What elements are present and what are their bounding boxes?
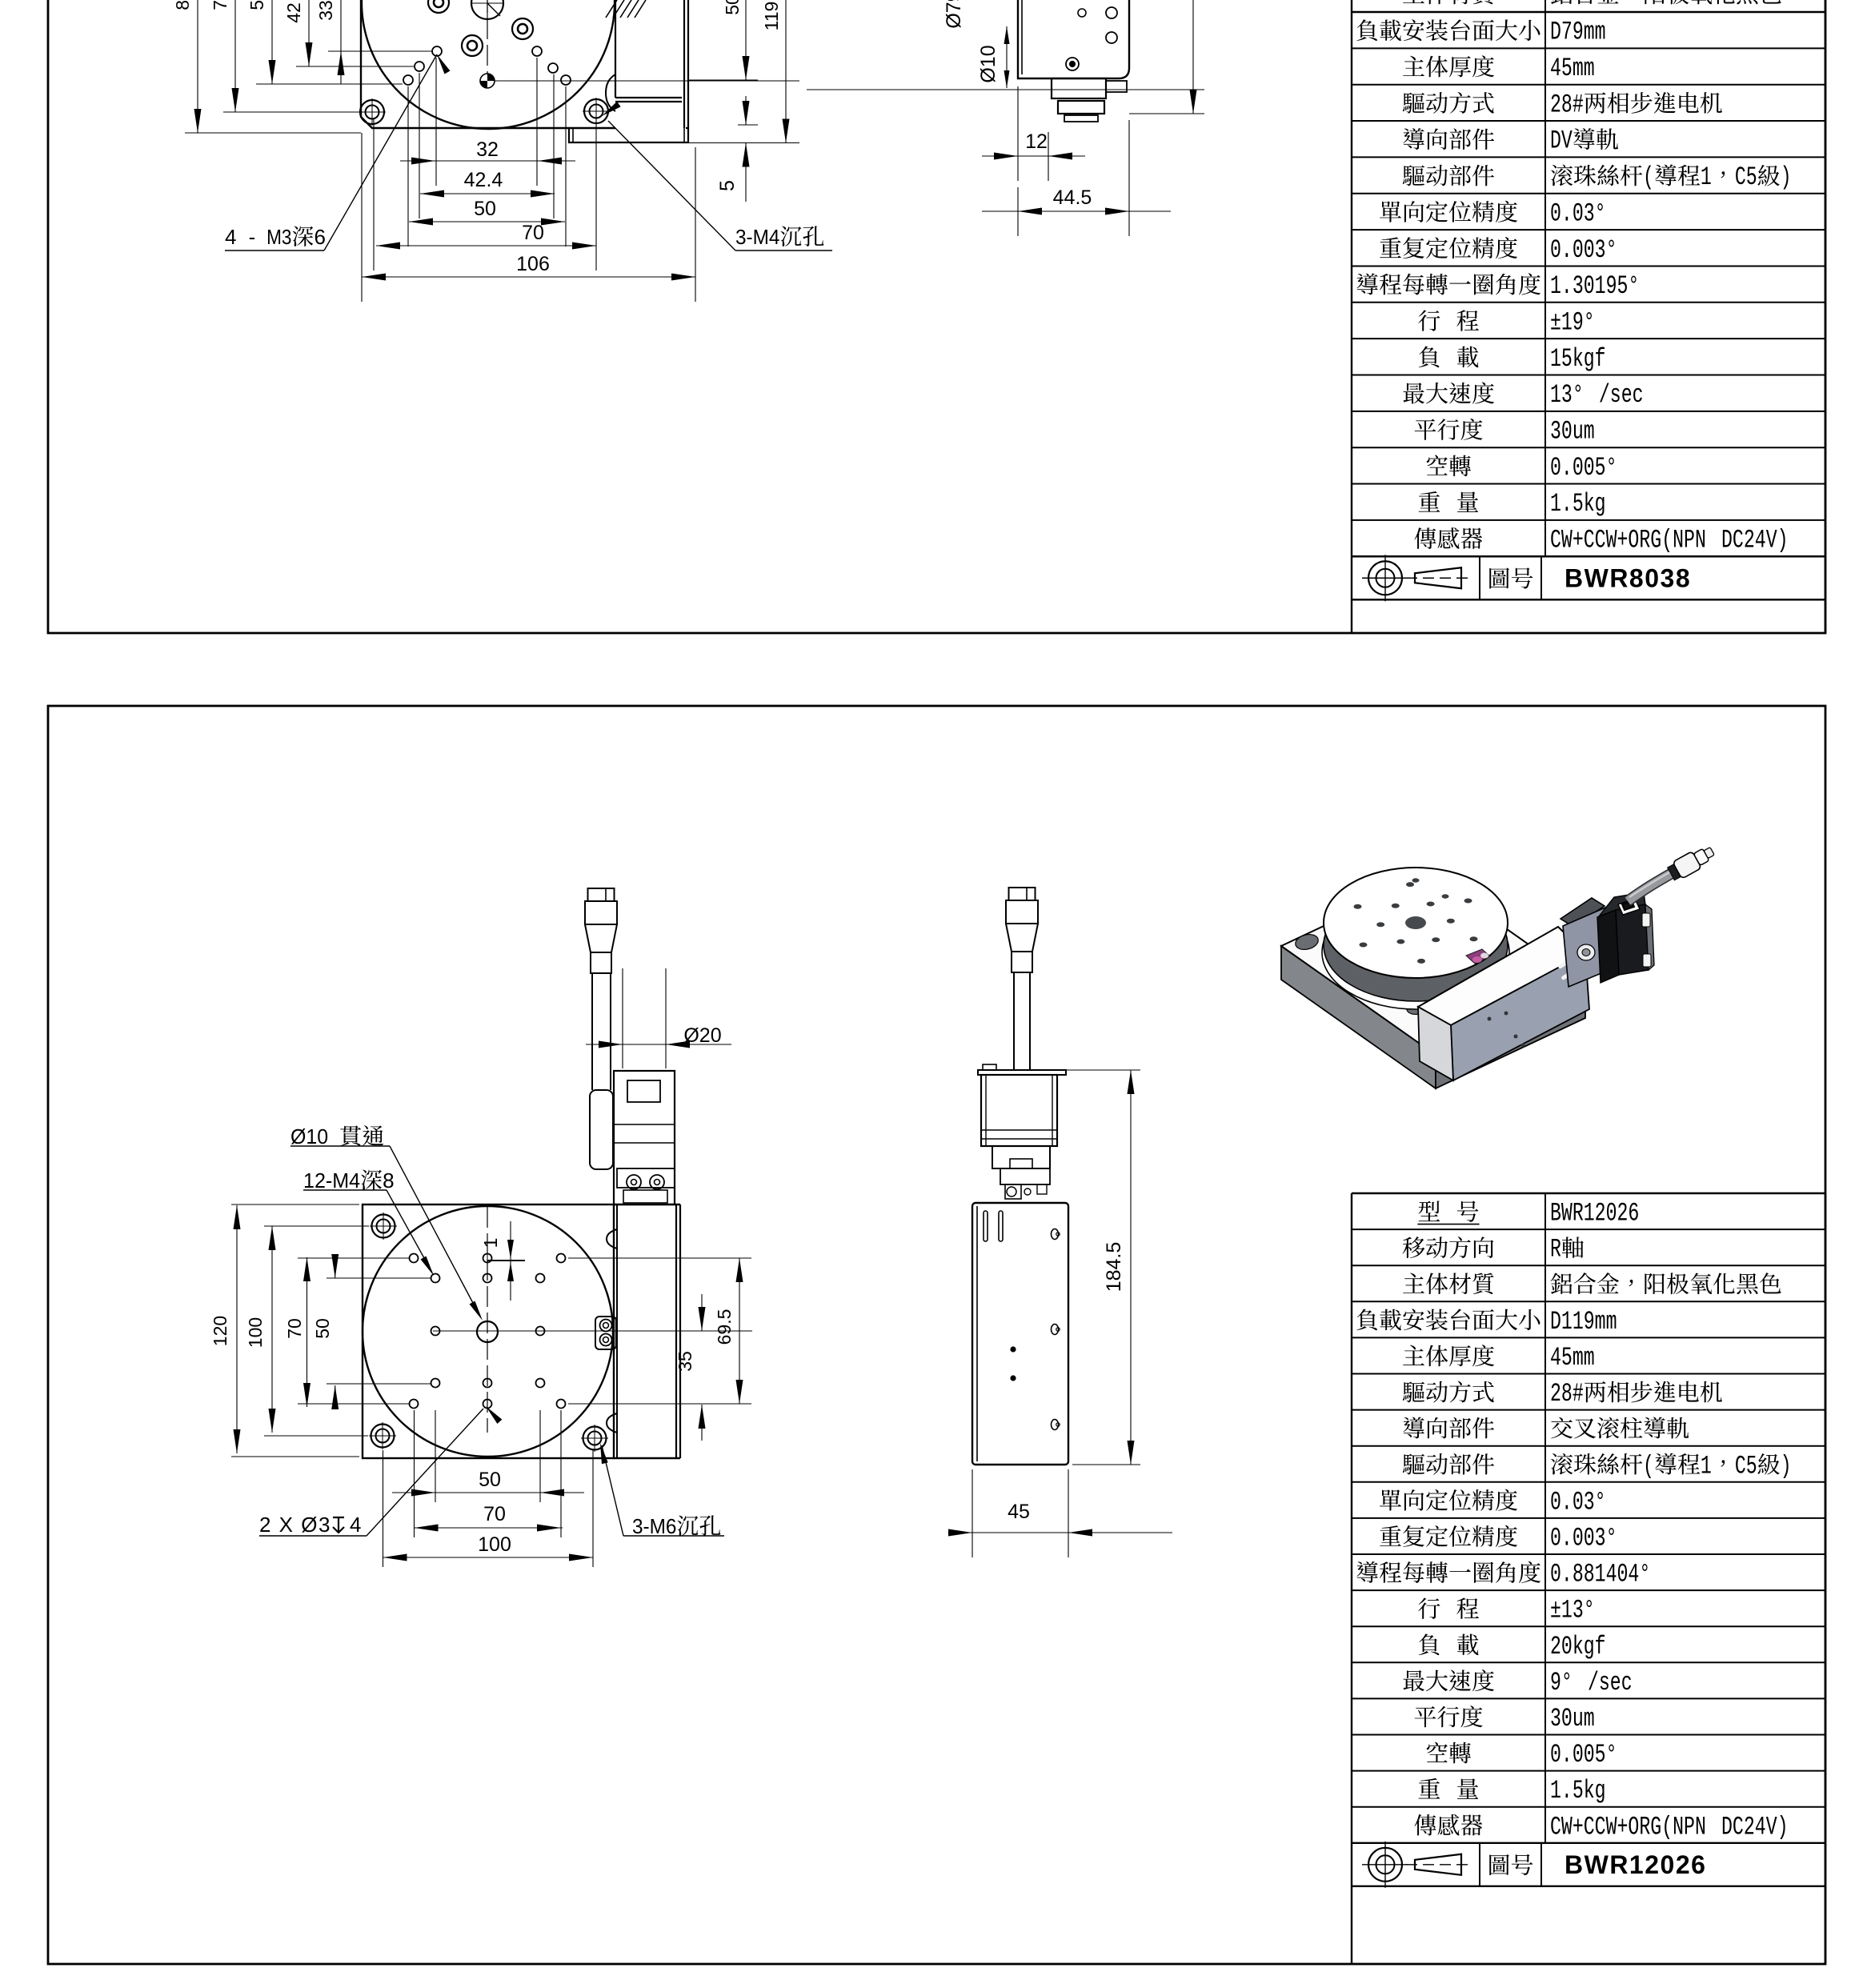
- svg-text:69.5: 69.5: [714, 1309, 735, 1345]
- sheet2 plan view: square body: [363, 1204, 614, 1458]
- svg-text:106: 106: [516, 253, 550, 275]
- sheet2 plan: centerline horizontal: [433, 1330, 752, 1332]
- iso view: motor cable entry box: [1618, 899, 1640, 915]
- svg-text:): ): [1781, 162, 1792, 192]
- sheet2 plan: mini dim 1: [487, 1260, 525, 1261]
- svg-text:4: 4: [225, 225, 236, 249]
- sheet1 plan view: square body outline: [361, 0, 569, 128]
- svg-text:45: 45: [1008, 1501, 1030, 1523]
- sheet2 side view: adapter: [1000, 1168, 1050, 1184]
- sheet1 plan: base tab bottom right: [569, 128, 688, 142]
- svg-text:Ø10: Ø10: [290, 1124, 328, 1148]
- svg-text:119: 119: [761, 2, 782, 31]
- svg-text:CW+CCW+ORG(NPN: CW+CCW+ORG(NPN: [1550, 1812, 1706, 1842]
- iso view: rail cover top face: [1418, 927, 1585, 1025]
- tuhao label: [1489, 1854, 1532, 1875]
- svg-text:1.30195°: 1.30195°: [1550, 271, 1639, 301]
- svg-text:50: 50: [246, 0, 267, 10]
- svg-text:0.03°: 0.03°: [1550, 198, 1606, 228]
- svg-text:D119mm: D119mm: [1550, 1307, 1617, 1337]
- svg-text:±13°: ±13°: [1550, 1596, 1595, 1625]
- iso view: turntable bottom flange: [1322, 896, 1509, 1009]
- sheet1 plan: corner screw bottom-left: [360, 100, 384, 124]
- sheet2 side view: coupling housing: [992, 1146, 1050, 1168]
- iso view: cable connector: [1666, 843, 1717, 883]
- svg-text:CW+CCW+ORG(NPN: CW+CCW+ORG(NPN: [1550, 526, 1706, 555]
- svg-text:100: 100: [478, 1533, 511, 1556]
- sheet2 bottom dim 70: [415, 1527, 563, 1529]
- svg-text:3-M6: 3-M6: [632, 1514, 676, 1538]
- sheet2 plan: corner screw bottom-right: [583, 1427, 607, 1450]
- svg-text:0.005°: 0.005°: [1550, 1740, 1617, 1770]
- svg-text:12-M4: 12-M4: [303, 1168, 360, 1192]
- svg-text:M3: M3: [266, 225, 291, 249]
- svg-text:42: 42: [283, 2, 304, 23]
- sheet2 plan view: turntable circle D119: [363, 1206, 613, 1457]
- svg-text:13°: 13°: [1550, 380, 1584, 410]
- sheet2 side view: motor flange: [978, 1070, 1066, 1075]
- sheet1 plan: horizontal centerline to side view: [495, 80, 799, 82]
- sheet1 side view: main body: [1018, 0, 1129, 78]
- cone projection symbol: [1415, 1854, 1461, 1875]
- iso view: base corner holes: [1294, 932, 1320, 952]
- sheet2 plan: hole pattern: [410, 1254, 419, 1263]
- svg-text:70: 70: [522, 222, 544, 244]
- svg-text:1.5kg: 1.5kg: [1550, 489, 1606, 519]
- sheet2 plan-col motor block (top view): [614, 1071, 675, 1204]
- iso view: motor right edge sliver: [1645, 904, 1654, 970]
- cone projection symbol: [1415, 567, 1461, 588]
- sheet1 dim 42.4 line: [308, 0, 310, 66]
- sheet2 plan: sensor dog connector: [595, 1317, 616, 1349]
- svg-text:45mm: 45mm: [1550, 54, 1595, 83]
- svg-text:30um: 30um: [1550, 417, 1595, 447]
- sheet2 plan-col coupling detail: [617, 1168, 675, 1188]
- svg-text:2 X Ø3: 2 X Ø3: [259, 1513, 331, 1537]
- svg-text:3-M4: 3-M4: [735, 225, 779, 249]
- svg-text:28#: 28#: [1550, 1379, 1584, 1409]
- sheet1 plan: counterbore holes on table: [428, 0, 449, 13]
- svg-text:0.881404°: 0.881404°: [1550, 1560, 1650, 1589]
- sheet1 plan: turntable circle (partial): [362, 0, 615, 129]
- sheet1 dim 50 line: [271, 0, 273, 84]
- svg-text:70: 70: [210, 0, 230, 10]
- svg-text:9°: 9°: [1550, 1668, 1573, 1697]
- svg-text:15kgf: 15kgf: [1550, 344, 1606, 374]
- svg-text:BWR12026: BWR12026: [1550, 1199, 1639, 1228]
- svg-text:DV: DV: [1550, 126, 1573, 156]
- sheet2 dim 50: [335, 1260, 336, 1278]
- sheet1 plan: clamp hatch top right: [606, 0, 617, 18]
- sheet2 bottom dim 50: [392, 1492, 584, 1493]
- sheet1 plan: vertical dashed centerline: [487, 0, 488, 74]
- sheet1 side view: dim 44.5: [982, 210, 1171, 212]
- svg-text:86: 86: [172, 0, 193, 10]
- sheet2 spec table: [1351, 1193, 1352, 1843]
- sheet1 side view: right tab: [1106, 81, 1127, 92]
- sheet1 plan: re-entrant clamp cut: [606, 74, 615, 111]
- sheet1 side view: dim 12: [982, 155, 1085, 157]
- svg-text:BWR12026: BWR12026: [1565, 1850, 1706, 1879]
- svg-text:R: R: [1550, 1235, 1561, 1265]
- sheet1 dim 70 line: [234, 0, 236, 112]
- iso view: motor cable: [1628, 872, 1673, 901]
- sheet2 side view: top slots: [984, 1211, 988, 1241]
- sheet2 plan: corner screw bottom-left: [371, 1425, 395, 1448]
- svg-text:0.005°: 0.005°: [1550, 453, 1617, 483]
- sheet2 side view: motor body: [981, 1075, 1057, 1146]
- sheet2 dim 70: [306, 1257, 308, 1407]
- first-angle projection symbol: [1368, 1848, 1402, 1882]
- svg-text:35: 35: [675, 1351, 695, 1372]
- svg-text:1.5kg: 1.5kg: [1550, 1776, 1606, 1806]
- svg-text:50: 50: [474, 198, 496, 220]
- iso view: motor bracket front face: [1563, 908, 1611, 987]
- svg-text:DC24V): DC24V): [1721, 526, 1789, 555]
- svg-text:Ø79: Ø79: [943, 0, 965, 29]
- sheet2 dim 69.5: [568, 1257, 751, 1259]
- iso view: rail cover left end face: [1418, 1007, 1453, 1080]
- svg-text:(: (: [1643, 1451, 1654, 1481]
- svg-text:C5: C5: [1735, 162, 1757, 192]
- svg-text:12: 12: [1025, 130, 1048, 153]
- svg-text:70: 70: [483, 1503, 506, 1525]
- svg-text:0.03°: 0.03°: [1550, 1487, 1606, 1517]
- sheet 1 border frame: [48, 0, 1825, 633]
- sheet2 plan: central bore: [477, 1321, 498, 1342]
- svg-text:5: 5: [716, 180, 739, 191]
- sheet2 plan: corner screw top-left: [372, 1215, 395, 1238]
- sheet1 dim 86 line: [197, 0, 198, 133]
- svg-text:0.003°: 0.003°: [1550, 1523, 1617, 1553]
- sheet2 plan: dashed centerline vertical: [487, 1207, 488, 1433]
- tuhao label: [1489, 567, 1532, 588]
- sheet1 side view: motor bracket: [1052, 78, 1106, 98]
- svg-text:30um: 30um: [1550, 1704, 1595, 1733]
- sheet2 dim 120: [236, 1205, 238, 1453]
- motor cable connector: [588, 888, 615, 901]
- iso view: sensor dog magenta detail: [1466, 949, 1490, 964]
- svg-text:8: 8: [383, 1168, 394, 1192]
- sheet1 table partial top row (cut off): [1403, 0, 1493, 4]
- svg-text:1: 1: [1701, 162, 1712, 192]
- sheet1 dim 5: [738, 124, 758, 126]
- svg-text:44.5: 44.5: [1053, 186, 1092, 209]
- sheet1 plan: center marker: [480, 74, 495, 88]
- svg-text:50: 50: [312, 1318, 333, 1339]
- svg-text:1: 1: [1701, 1451, 1712, 1481]
- sheet1 side view: motor: [1058, 101, 1104, 114]
- iso view: base top face: [1281, 876, 1585, 1055]
- svg-text:70: 70: [284, 1318, 305, 1339]
- svg-text:1: 1: [480, 1238, 501, 1249]
- motor cable connector: [1009, 888, 1036, 900]
- iso view: turntable disc side band: [1324, 889, 1508, 1001]
- sheet2 dim dia20: [586, 1044, 731, 1045]
- svg-text:D79mm: D79mm: [1550, 18, 1606, 47]
- iso view: cover slots: [1557, 952, 1585, 980]
- svg-text:45mm: 45mm: [1550, 1343, 1595, 1373]
- sheet2 side view: main body: [972, 1203, 1068, 1465]
- sheet2 dim 184.5: [1130, 1070, 1132, 1465]
- iso view: disc holes: [1406, 882, 1414, 887]
- sheet2 side view: small dots: [1011, 1347, 1016, 1352]
- sheet1 side view table centerline: [807, 89, 1204, 90]
- svg-text:184.5: 184.5: [1103, 1242, 1125, 1293]
- svg-text:4: 4: [350, 1513, 361, 1537]
- sheet 2 border frame: [48, 706, 1825, 1964]
- svg-text:120: 120: [210, 1316, 230, 1346]
- sheet1 dim 50 right: [745, 0, 747, 80]
- sheet1 plan: motor strip right edge double line: [683, 0, 685, 128]
- sheet1 side view: sensor screws: [1066, 58, 1079, 70]
- sheet2 plan: clamp re-entrant cuts: [607, 1229, 617, 1249]
- svg-text:Ø10: Ø10: [977, 45, 1000, 82]
- svg-text:0.003°: 0.003°: [1550, 235, 1617, 265]
- sheet2 bottom dim 100: [383, 1557, 593, 1558]
- sheet1 plan: M3 threaded holes: [432, 46, 442, 56]
- svg-text:C5: C5: [1735, 1451, 1757, 1481]
- sheet1 spec table: [1351, 0, 1352, 12]
- iso view: base front-right face: [1436, 984, 1585, 1088]
- sheet2 dim 100: [271, 1226, 273, 1433]
- svg-text:-: -: [249, 225, 256, 249]
- sheet1 dim 106: [362, 276, 695, 278]
- sheet1 plan: corner screw bottom-right (3-M4 counterbore): [584, 99, 608, 123]
- svg-text:±19°: ±19°: [1550, 307, 1595, 337]
- iso view: base left face: [1281, 946, 1436, 1088]
- sheet2 plan view: motor strip: [616, 1204, 618, 1458]
- svg-text:/sec: /sec: [1599, 380, 1644, 410]
- iso view: turntable disc top face: [1324, 868, 1508, 978]
- svg-text:BWR8038: BWR8038: [1565, 563, 1691, 592]
- svg-text:50: 50: [479, 1469, 501, 1491]
- svg-text:42.4: 42.4: [464, 169, 503, 191]
- svg-text:100: 100: [245, 1317, 266, 1348]
- sheet1 dim 70: [376, 245, 596, 246]
- sheet1 dim 50: [409, 221, 565, 222]
- svg-text:50: 50: [722, 0, 743, 15]
- sheet1 dim 119 right: [785, 0, 787, 143]
- sheet2 plan-col cable tab: [590, 1090, 613, 1169]
- iso view: coupling cylinder: [1577, 944, 1595, 960]
- sheet1 side view: dim 119 extension: [1129, 113, 1204, 114]
- iso view: motor black faces: [1597, 910, 1619, 983]
- sheet1 dim 32: [400, 160, 575, 162]
- svg-text:32: 32: [476, 138, 499, 161]
- svg-text:33: 33: [315, 0, 336, 21]
- iso view: motor bracket dark top plate: [1561, 898, 1605, 927]
- sheet2 side view: right side holes: [1052, 1229, 1059, 1240]
- sheet1 dim 33 line: [340, 0, 342, 84]
- iso view: motor top face: [1599, 892, 1645, 916]
- svg-text:(: (: [1643, 162, 1654, 192]
- sheet2 dim 45: [948, 1532, 1172, 1533]
- first-angle projection symbol: [1368, 561, 1402, 595]
- svg-text:6: 6: [314, 225, 325, 249]
- sheet1 plan: central bore with crosshair: [471, 0, 503, 19]
- svg-text:/sec: /sec: [1588, 1668, 1633, 1697]
- sheet1 dim 42.4: [420, 193, 555, 194]
- svg-text:28#: 28#: [1550, 90, 1584, 119]
- svg-text:): ): [1781, 1451, 1792, 1481]
- svg-text:Ø20: Ø20: [683, 1024, 721, 1047]
- svg-text:20kgf: 20kgf: [1550, 1632, 1606, 1661]
- iso view: rail cover front face: [1451, 953, 1589, 1080]
- svg-text:DC24V): DC24V): [1721, 1812, 1789, 1842]
- sheet2 dim 35: [701, 1294, 703, 1331]
